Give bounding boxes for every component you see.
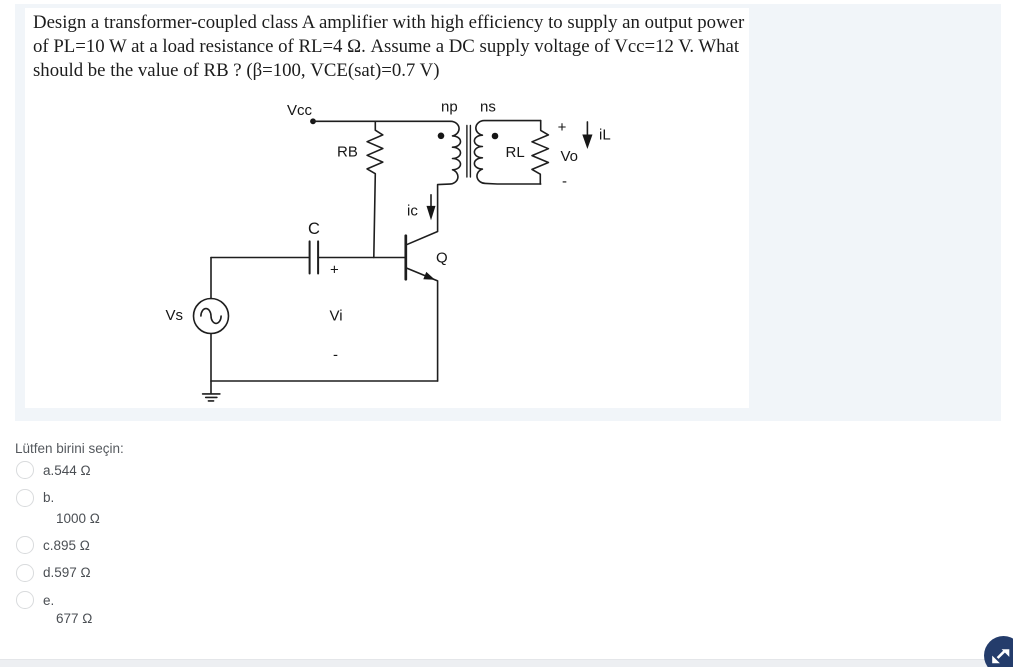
ground bbox=[203, 381, 220, 401]
current arrow iL bbox=[586, 122, 588, 140]
resistor RL bbox=[532, 121, 548, 184]
transistor Q1 emitter bbox=[406, 268, 438, 381]
primary phasing dot bbox=[438, 133, 445, 140]
wire Vcc rail bbox=[313, 120, 451, 122]
svg-text:+: + bbox=[558, 119, 567, 136]
svg-text:np: np bbox=[441, 99, 458, 116]
current arrow ic bbox=[430, 195, 432, 208]
source Vs circle bbox=[194, 299, 229, 334]
svg-text:ic: ic bbox=[407, 203, 418, 220]
resistor RB bbox=[367, 121, 383, 257]
wire input top bbox=[211, 257, 310, 259]
svg-text:iL: iL bbox=[599, 127, 611, 144]
svg-text:Q: Q bbox=[436, 250, 448, 267]
capacitor C bbox=[310, 241, 319, 273]
wire base bbox=[318, 257, 406, 259]
svg-text:Vs: Vs bbox=[166, 307, 184, 324]
Vcc terminal dot bbox=[310, 118, 316, 124]
svg-text:-: - bbox=[333, 346, 338, 363]
wire source bottom lead bbox=[210, 334, 212, 382]
source Vs sine bbox=[201, 309, 221, 324]
svg-text:ns: ns bbox=[480, 99, 496, 116]
svg-text:-: - bbox=[562, 173, 567, 190]
wire bottom return bbox=[211, 380, 438, 382]
svg-text:+: + bbox=[330, 261, 339, 278]
transformer T1 primary winding np and collector wire bbox=[406, 121, 460, 245]
transformer T1 core bbox=[467, 126, 471, 178]
svg-text:Vi: Vi bbox=[330, 308, 343, 325]
secondary phasing dot bbox=[492, 133, 499, 140]
transformer T1 secondary winding ns bbox=[474, 121, 540, 184]
svg-text:Vcc: Vcc bbox=[287, 102, 313, 119]
svg-text:RL: RL bbox=[506, 144, 525, 161]
wire source top lead bbox=[210, 258, 212, 299]
svg-text:Vo: Vo bbox=[561, 148, 579, 165]
transistor Q1 bar bbox=[404, 236, 407, 280]
svg-text:C: C bbox=[308, 220, 320, 238]
svg-text:RB: RB bbox=[337, 144, 358, 161]
